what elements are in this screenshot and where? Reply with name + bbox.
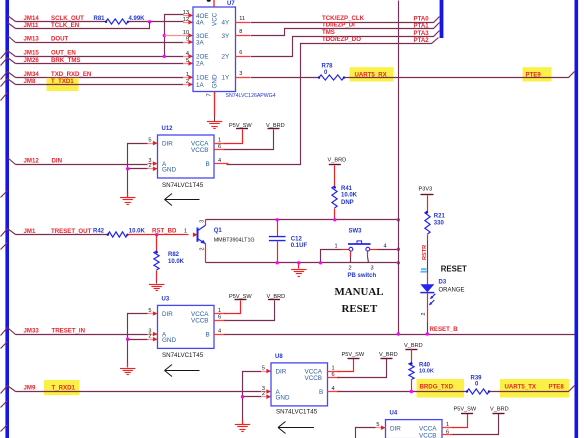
U3 pin number 6 bbox=[218, 314, 221, 320]
U3 pin name GND bbox=[162, 337, 176, 344]
label RST_BD net name bbox=[152, 227, 177, 234]
highlight box T_TXD1 bbox=[47, 78, 79, 91]
svg-text:JM11: JM11 bbox=[24, 22, 40, 29]
U3 pin name VCCA bbox=[191, 311, 209, 318]
label U7 refdes bbox=[227, 1, 235, 7]
wire UART5_TX to PTE8 right bus bbox=[490, 386, 575, 392]
svg-text:U3: U3 bbox=[162, 297, 170, 303]
junction gnd row / RESET vertical bbox=[397, 261, 400, 264]
junction OE vertical at 2OE bbox=[163, 55, 166, 58]
U12 pin name DIR bbox=[162, 141, 173, 148]
junction SW3 pin1 leg bbox=[319, 261, 322, 264]
wire U4 VCCA to P5V_SW bbox=[442, 414, 468, 428]
power symbol V_BRD above U3 bbox=[267, 294, 286, 300]
svg-text:UART5_TX: UART5_TX bbox=[505, 384, 537, 391]
label RESET (LED) bbox=[441, 264, 467, 273]
svg-text:VCCB: VCCB bbox=[305, 375, 323, 382]
label R41 DNP bbox=[341, 200, 354, 206]
Q1 emitter pin number 2 (rotated) bbox=[200, 248, 206, 251]
wire DIN net (JM12 to U12 A) bbox=[16, 161, 158, 166]
power symbol P5V_SW above U4 bbox=[454, 406, 477, 413]
U7 pin number 7 (rotated) bbox=[207, 93, 213, 96]
U7 VCC pin name (rotated) bbox=[212, 12, 219, 26]
label TDI/EZP_DI net name bbox=[322, 22, 355, 29]
wire Q1 emitter down to gnd row bbox=[205, 244, 207, 263]
svg-text:1OE: 1OE bbox=[196, 75, 209, 82]
wire TRESET_OUT net (JM1 to R42) bbox=[16, 234, 108, 236]
label R81 refdes bbox=[94, 16, 106, 22]
svg-text:3Y: 3Y bbox=[222, 33, 231, 40]
U8 pin number 4 bbox=[332, 386, 335, 392]
label TCK/EZP_CLK net name bbox=[322, 15, 365, 22]
ground symbol on emitter row bbox=[291, 270, 307, 277]
svg-text:V_BRD: V_BRD bbox=[379, 352, 398, 358]
power symbol V_BRD above U4 bbox=[490, 406, 509, 413]
wire 2Y to PTA3 (TMS) bbox=[236, 31, 440, 57]
U7 pin name 3Y bbox=[222, 33, 231, 40]
U7 pin name 2A bbox=[196, 61, 205, 68]
svg-text:PTA3: PTA3 bbox=[414, 30, 430, 37]
U3 pin number 1 bbox=[218, 308, 221, 314]
svg-text:C12: C12 bbox=[291, 236, 303, 242]
svg-text:RESET: RESET bbox=[342, 303, 378, 315]
U7 pin name 1Y bbox=[222, 75, 231, 82]
svg-text:11: 11 bbox=[239, 16, 245, 22]
bus entry for JM8 wire bbox=[1, 79, 16, 87]
label MANUAL bbox=[335, 286, 384, 298]
wire OE tie vertical (2OE-3OE-4OE to pin 13) bbox=[165, 13, 194, 56]
power symbol V_BRD above R40 bbox=[404, 343, 423, 350]
svg-text:VCCB: VCCB bbox=[191, 147, 209, 154]
svg-text:PTA1: PTA1 bbox=[414, 22, 430, 29]
power symbol V_BRD above U12 bbox=[266, 123, 285, 129]
label TCLK_EN net name bbox=[51, 22, 79, 29]
svg-text:OUT_EN: OUT_EN bbox=[51, 50, 76, 57]
label Q1 base pin number 1 bbox=[184, 228, 187, 234]
PTA bus stub (blue vertical bar top right) bbox=[440, 0, 444, 38]
bus entry hatch (unlabelled wire) bbox=[1, 425, 8, 432]
U8 pin name VCCA bbox=[305, 368, 323, 375]
svg-text:B: B bbox=[206, 161, 210, 168]
wire BRK_TMS net (JM26 to U7 pin 5 2A) bbox=[16, 61, 194, 66]
svg-text:U12: U12 bbox=[162, 126, 174, 132]
label BRK_TMS net name bbox=[51, 57, 80, 64]
wire SW3 pin 1 to gnd row bbox=[321, 250, 349, 263]
wire U4 VCCB to V_BRD bbox=[442, 414, 499, 435]
label SW3 PB switch bbox=[348, 273, 377, 279]
direction arrow below U8 bbox=[278, 422, 314, 434]
U8 pin name DIR bbox=[276, 368, 287, 375]
svg-text:MANUAL: MANUAL bbox=[335, 286, 384, 298]
svg-text:SN74LVC1T45: SN74LVC1T45 bbox=[162, 182, 204, 189]
label PTA0 bbox=[414, 15, 430, 22]
wire U12 VCCA to P5V_SW bbox=[214, 130, 243, 144]
U8 pin number 3 bbox=[262, 386, 265, 392]
wire gnd row (emitter/C12/SW3) bbox=[206, 262, 399, 264]
label JM14 bbox=[24, 15, 40, 22]
U7 pin 7 GND wire (bottom) bbox=[214, 92, 216, 122]
svg-text:1: 1 bbox=[186, 72, 189, 78]
resistor R39 (0 ohm) symbol bbox=[466, 389, 490, 394]
resistor R40 (10.0K) symbol bbox=[409, 350, 414, 392]
label JM33 bbox=[24, 327, 40, 334]
junction OE vertical at 3OE bbox=[163, 34, 166, 37]
svg-text:JM1: JM1 bbox=[24, 228, 36, 235]
U7 pin name 2OE bbox=[196, 54, 209, 61]
svg-text:2: 2 bbox=[186, 79, 189, 85]
svg-text:VCCB: VCCB bbox=[419, 432, 437, 438]
svg-text:JM15: JM15 bbox=[24, 50, 40, 57]
label PTE8 bbox=[549, 384, 565, 391]
highlight box BRDG_TXD bbox=[417, 379, 465, 398]
svg-text:TRESET_IN: TRESET_IN bbox=[52, 327, 86, 334]
svg-text:2OE: 2OE bbox=[196, 54, 209, 61]
svg-text:R82: R82 bbox=[168, 252, 180, 258]
power symbol P5V_SW above U12 bbox=[229, 123, 252, 129]
svg-text:VCC: VCC bbox=[212, 12, 219, 26]
label U3 part number SN74LVC1T45 bbox=[162, 352, 204, 359]
label TXD_RXD_EN net name bbox=[51, 71, 91, 78]
svg-text:DIR: DIR bbox=[162, 141, 173, 148]
label JM11 bbox=[24, 22, 40, 29]
power symbol P3V3 bbox=[419, 186, 434, 194]
U4 pin name DIR bbox=[390, 425, 401, 432]
label R82 refdes bbox=[168, 252, 180, 258]
U3 pin number 3 bbox=[148, 328, 151, 334]
svg-text:GND: GND bbox=[162, 167, 176, 174]
label D3 refdes bbox=[439, 279, 447, 285]
label R42 refdes bbox=[93, 228, 105, 234]
wire SW3 pin 3 leg bbox=[368, 252, 369, 263]
svg-text:V_BRD: V_BRD bbox=[328, 158, 347, 164]
U3 pin name B bbox=[206, 332, 210, 339]
junction C12 bottom bbox=[276, 261, 279, 264]
wire TXD_RXD_EN net (JM34 to U7 pin 1 1OE) bbox=[16, 75, 194, 80]
ground symbol below R82 bbox=[149, 285, 165, 291]
svg-text:4: 4 bbox=[218, 328, 221, 334]
power symbol V_BRD above U8 bbox=[379, 352, 398, 359]
wire U12 GND pin to ground bbox=[128, 167, 158, 198]
junction RESET_B / SW vertical bbox=[397, 332, 400, 335]
label JM15 bbox=[24, 50, 40, 57]
U12 pin number 1 bbox=[218, 138, 221, 144]
label OUT_EN net name bbox=[51, 50, 76, 57]
svg-text:SCLK_OUT: SCLK_OUT bbox=[51, 15, 84, 22]
U7 pin name 3OE bbox=[196, 33, 209, 40]
svg-text:5: 5 bbox=[148, 308, 151, 314]
bus entry hatch (unlabelled wire) bbox=[1, 342, 8, 349]
wire SW3 pin 2 leg bbox=[350, 252, 352, 263]
svg-text:U4: U4 bbox=[390, 410, 398, 416]
svg-text:JM14: JM14 bbox=[24, 15, 40, 22]
svg-text:RSTR: RSTR bbox=[422, 245, 428, 260]
wire U4 DIR from left bbox=[356, 425, 386, 438]
svg-text:UART5_RX: UART5_RX bbox=[355, 71, 388, 78]
label JM12 bbox=[24, 158, 40, 165]
U7 pin number 13 bbox=[183, 10, 189, 16]
wire T_TXD1 net (JM8 to U7 pin 2 1A) bbox=[16, 82, 194, 87]
label DIN net name bbox=[52, 158, 63, 165]
svg-text:RESET_B: RESET_B bbox=[430, 326, 459, 333]
svg-text:JM33: JM33 bbox=[24, 327, 40, 334]
wire U8 DIR tie to GND bbox=[243, 369, 272, 397]
svg-text:5: 5 bbox=[186, 58, 189, 64]
wire 4Y to PTA0 bbox=[236, 17, 440, 23]
label R40 refdes bbox=[419, 363, 431, 369]
wire U12 DIR tie to GND bbox=[128, 141, 158, 169]
label PTA2 bbox=[414, 37, 430, 44]
U3 pin name VCCB bbox=[191, 318, 209, 325]
U3 pin number 4 bbox=[218, 328, 221, 334]
svg-text:RST_BD: RST_BD bbox=[152, 227, 177, 234]
wire TRESET_IN net (JM33 to U3 A) bbox=[16, 332, 158, 337]
label R39 refdes bbox=[471, 375, 483, 381]
U8 pin number 6 bbox=[332, 372, 335, 378]
svg-text:GND: GND bbox=[276, 395, 290, 402]
label SW3 pin number 4 bbox=[384, 244, 387, 250]
svg-text:TXD_RXD_EN: TXD_RXD_EN bbox=[51, 71, 91, 78]
wire U8 GND pin to ground bbox=[243, 394, 272, 424]
resistor R21 (330) symbol bbox=[425, 196, 430, 241]
svg-text:10.0K: 10.0K bbox=[168, 259, 185, 265]
level shifter U12 SN74LVC1T45 body bbox=[158, 135, 215, 178]
label UART5_RX net name bbox=[355, 71, 388, 78]
U4 pin number 5 bbox=[376, 422, 379, 428]
wire U8 VCCA to P5V_SW bbox=[328, 359, 354, 372]
U3 pin number 2 bbox=[148, 334, 151, 340]
wire U3 GND pin to ground bbox=[128, 337, 158, 368]
label PTA1 bbox=[414, 22, 430, 29]
svg-text:4: 4 bbox=[384, 244, 387, 250]
wire Q1 collector up to reset row bbox=[205, 220, 207, 226]
level shifter U3 SN74LVC1T45 body bbox=[158, 305, 215, 348]
label SW3 pin number 3 bbox=[371, 266, 374, 272]
wire U3 VCCA to P5V_SW bbox=[214, 301, 241, 314]
DRC marker near D3 bbox=[421, 268, 428, 272]
U7 GND pin name (rotated) bbox=[212, 74, 219, 88]
Q1 collector pin number 3 (rotated) bbox=[200, 220, 206, 223]
svg-text:TCLK_EN: TCLK_EN bbox=[51, 22, 79, 29]
ground symbol below U7 bbox=[207, 122, 222, 129]
label BRDG_TXD net name bbox=[420, 384, 454, 391]
U8 pin number 1 bbox=[332, 365, 335, 371]
svg-text:DIR: DIR bbox=[390, 425, 401, 432]
ground symbol below U3 bbox=[120, 369, 135, 375]
U3 pin name DIR bbox=[162, 311, 173, 318]
wire T_RXD1 net (JM9 to U8 A) bbox=[16, 389, 272, 394]
right bus (blue vertical bar) bbox=[575, 0, 579, 438]
U12 pin number 2 bbox=[148, 163, 151, 169]
junction SW3 pin4 / RESET vertical bbox=[397, 248, 400, 251]
resistor R42 (10.0K) symbol bbox=[107, 232, 129, 237]
svg-text:PTE8: PTE8 bbox=[549, 384, 565, 391]
junction C12 top bbox=[276, 218, 279, 221]
op-amp/buffer U7 SN74LVC126APWG4 body bbox=[193, 7, 236, 92]
wire BRDG_TXD net (U8 B to R39) bbox=[328, 391, 468, 393]
svg-text:Q1: Q1 bbox=[214, 228, 223, 234]
svg-text:P5V_SW: P5V_SW bbox=[454, 406, 477, 412]
label R40 value 10.0K bbox=[419, 369, 434, 375]
svg-text:JM9: JM9 bbox=[24, 384, 36, 391]
svg-text:BRK_TMS: BRK_TMS bbox=[51, 57, 80, 64]
label R81 value 4.99K bbox=[129, 16, 146, 22]
svg-text:4Y: 4Y bbox=[222, 20, 231, 27]
label RESET (manual reset) bbox=[342, 303, 378, 315]
svg-text:1: 1 bbox=[335, 244, 338, 250]
svg-text:GND: GND bbox=[162, 337, 176, 344]
svg-text:GND: GND bbox=[212, 74, 219, 88]
U12 pin name GND bbox=[162, 167, 176, 174]
label JM9 bbox=[24, 384, 36, 391]
junction R81/TCLK_EN node bbox=[148, 20, 151, 23]
label SW3 pin number 1 bbox=[335, 244, 338, 250]
svg-text:2A: 2A bbox=[196, 61, 205, 68]
U4 pin number 6 bbox=[446, 430, 449, 436]
svg-text:PB switch: PB switch bbox=[348, 273, 377, 279]
svg-text:V_BRD: V_BRD bbox=[490, 406, 509, 412]
label PTA3 bbox=[414, 30, 430, 37]
bus entry hatch (unlabelled wire) bbox=[1, 191, 8, 198]
wire RESET_B vertical (net to off-page top) bbox=[398, 1, 400, 335]
label U8 part number SN74LVC1T45 bbox=[276, 409, 318, 416]
U7 pin number 9 bbox=[186, 37, 189, 43]
label JM34 bbox=[24, 71, 40, 78]
wire DOUT net (JM13 to U7 pin 9) bbox=[16, 40, 194, 45]
svg-text:U8: U8 bbox=[275, 354, 283, 360]
highlight box PTE9 bbox=[523, 67, 552, 81]
label T_RXD1 net name bbox=[52, 384, 76, 391]
label JM8 bbox=[24, 78, 36, 85]
ground symbol below U8 bbox=[235, 425, 250, 432]
svg-text:V_BRD: V_BRD bbox=[266, 123, 285, 129]
svg-text:4A: 4A bbox=[196, 20, 205, 27]
U7 pin name 4Y bbox=[222, 20, 231, 27]
label Q1 part MMBT3904LT1G bbox=[214, 237, 255, 243]
U4 pin name VCCA bbox=[419, 425, 437, 432]
label R21 refdes bbox=[434, 214, 446, 220]
svg-text:9: 9 bbox=[186, 37, 189, 43]
svg-text:R41: R41 bbox=[341, 186, 353, 192]
label DOUT net name bbox=[51, 35, 69, 42]
junction gnd row / ground bbox=[297, 261, 300, 264]
U7 pin name 3A bbox=[196, 39, 205, 46]
svg-text:3A: 3A bbox=[196, 39, 205, 46]
svg-text:P3V3: P3V3 bbox=[419, 186, 433, 192]
label U3 refdes bbox=[162, 297, 170, 303]
U8 pin name GND bbox=[276, 395, 290, 402]
power symbol P5V_SW above U3 bbox=[229, 294, 252, 300]
U3 pin name A bbox=[162, 332, 167, 339]
U8 pin number 5 bbox=[262, 365, 265, 371]
wire R81 output to U7 pin 12 (4A) bbox=[129, 20, 194, 25]
svg-text:1: 1 bbox=[184, 228, 187, 234]
bus entry hatch (unlabelled wire) bbox=[1, 401, 8, 408]
svg-text:JM13: JM13 bbox=[24, 35, 40, 42]
label JM1 bbox=[24, 228, 36, 235]
svg-text:3: 3 bbox=[239, 71, 242, 77]
svg-text:B: B bbox=[319, 389, 323, 396]
svg-text:R39: R39 bbox=[471, 375, 483, 381]
highlight box UART5_TX PTE8 bbox=[500, 379, 569, 398]
wire RSTR to D3 anode bbox=[427, 272, 429, 285]
svg-text:VCCA: VCCA bbox=[419, 425, 437, 432]
wire SCLK_OUT net (JM14 to R81) bbox=[16, 21, 107, 23]
bus entry for JM33 wire bbox=[1, 328, 16, 336]
U7 pin number 6 bbox=[239, 50, 242, 56]
svg-text:330: 330 bbox=[434, 220, 445, 226]
svg-text:8: 8 bbox=[239, 29, 242, 35]
svg-text:DIR: DIR bbox=[162, 311, 173, 318]
svg-text:10: 10 bbox=[183, 30, 189, 36]
U7 pin name 4OE bbox=[196, 13, 209, 20]
U7 pin number 4 bbox=[186, 51, 189, 57]
label R41 value 10.0K bbox=[341, 193, 358, 199]
label U7 part number SN74LVC126APWG4 bbox=[226, 93, 276, 99]
junction RST_BD/R82 bbox=[155, 233, 158, 236]
svg-text:1Y: 1Y bbox=[222, 75, 231, 82]
svg-text:T_TXD1: T_TXD1 bbox=[51, 78, 74, 85]
wire stub to U7 pin 10 (3OE) bbox=[165, 33, 194, 38]
svg-text:10.0K: 10.0K bbox=[129, 228, 146, 234]
svg-text:T_RXD1: T_RXD1 bbox=[52, 384, 76, 391]
svg-text:4: 4 bbox=[218, 158, 221, 164]
transistor Q1 MMBT3904LT1G symbol bbox=[193, 225, 206, 244]
svg-text:5: 5 bbox=[148, 138, 151, 144]
svg-text:2: 2 bbox=[421, 313, 427, 316]
label R42 value 10.0K bbox=[129, 228, 146, 234]
svg-text:P5V_SW: P5V_SW bbox=[229, 294, 252, 300]
label T_TXD1 net name bbox=[51, 78, 74, 85]
bus entry hatch (unlabelled wire) bbox=[1, 243, 8, 250]
wire 1Y to R78 bbox=[236, 77, 320, 79]
svg-text:DIR: DIR bbox=[276, 368, 287, 375]
wire 3Y to PTA1 bbox=[236, 23, 440, 36]
bus entry for JM26 wire bbox=[1, 58, 16, 66]
switch SW3 push button symbol bbox=[348, 241, 371, 251]
highlight box UART5_RX bbox=[350, 67, 394, 81]
svg-text:2Y: 2Y bbox=[222, 54, 231, 61]
svg-text:2: 2 bbox=[349, 266, 352, 272]
svg-text:TDI/EZP_DI: TDI/EZP_DI bbox=[322, 22, 355, 29]
junction reset row / RESET vertical bbox=[397, 218, 400, 221]
svg-text:1A: 1A bbox=[196, 82, 205, 89]
U4 pin name VCCB bbox=[419, 432, 437, 438]
svg-text:3: 3 bbox=[371, 266, 374, 272]
svg-text:TMS: TMS bbox=[322, 29, 335, 36]
label PTE9 bbox=[526, 71, 542, 78]
svg-text:6: 6 bbox=[239, 50, 242, 56]
junction R41 bottom bbox=[333, 218, 336, 221]
label R41 refdes bbox=[341, 186, 353, 192]
U7 pin number 5 bbox=[186, 58, 189, 64]
highlight box T_RXD1 bbox=[44, 380, 80, 395]
label U8 refdes bbox=[275, 354, 283, 360]
svg-text:VCCB: VCCB bbox=[191, 318, 209, 325]
svg-text:DNP: DNP bbox=[341, 200, 354, 206]
U8 pin name VCCB bbox=[305, 375, 323, 382]
wire TCLK_EN net (JM11 row, joins R81 node) bbox=[16, 22, 150, 29]
svg-text:10.0K: 10.0K bbox=[341, 193, 358, 199]
bus entry for JM9 wire bbox=[1, 386, 16, 394]
svg-text:SN74LVC126APWG4: SN74LVC126APWG4 bbox=[226, 93, 276, 99]
label SCLK_OUT net name bbox=[51, 15, 84, 22]
svg-text:R21: R21 bbox=[434, 214, 446, 220]
svg-text:7: 7 bbox=[207, 93, 213, 96]
U7 pin number 2 bbox=[186, 79, 189, 85]
svg-text:ORANGE: ORANGE bbox=[439, 287, 465, 293]
label R78 value 0 bbox=[324, 70, 328, 76]
junction R40 / BRDG_TXD bbox=[410, 390, 413, 393]
